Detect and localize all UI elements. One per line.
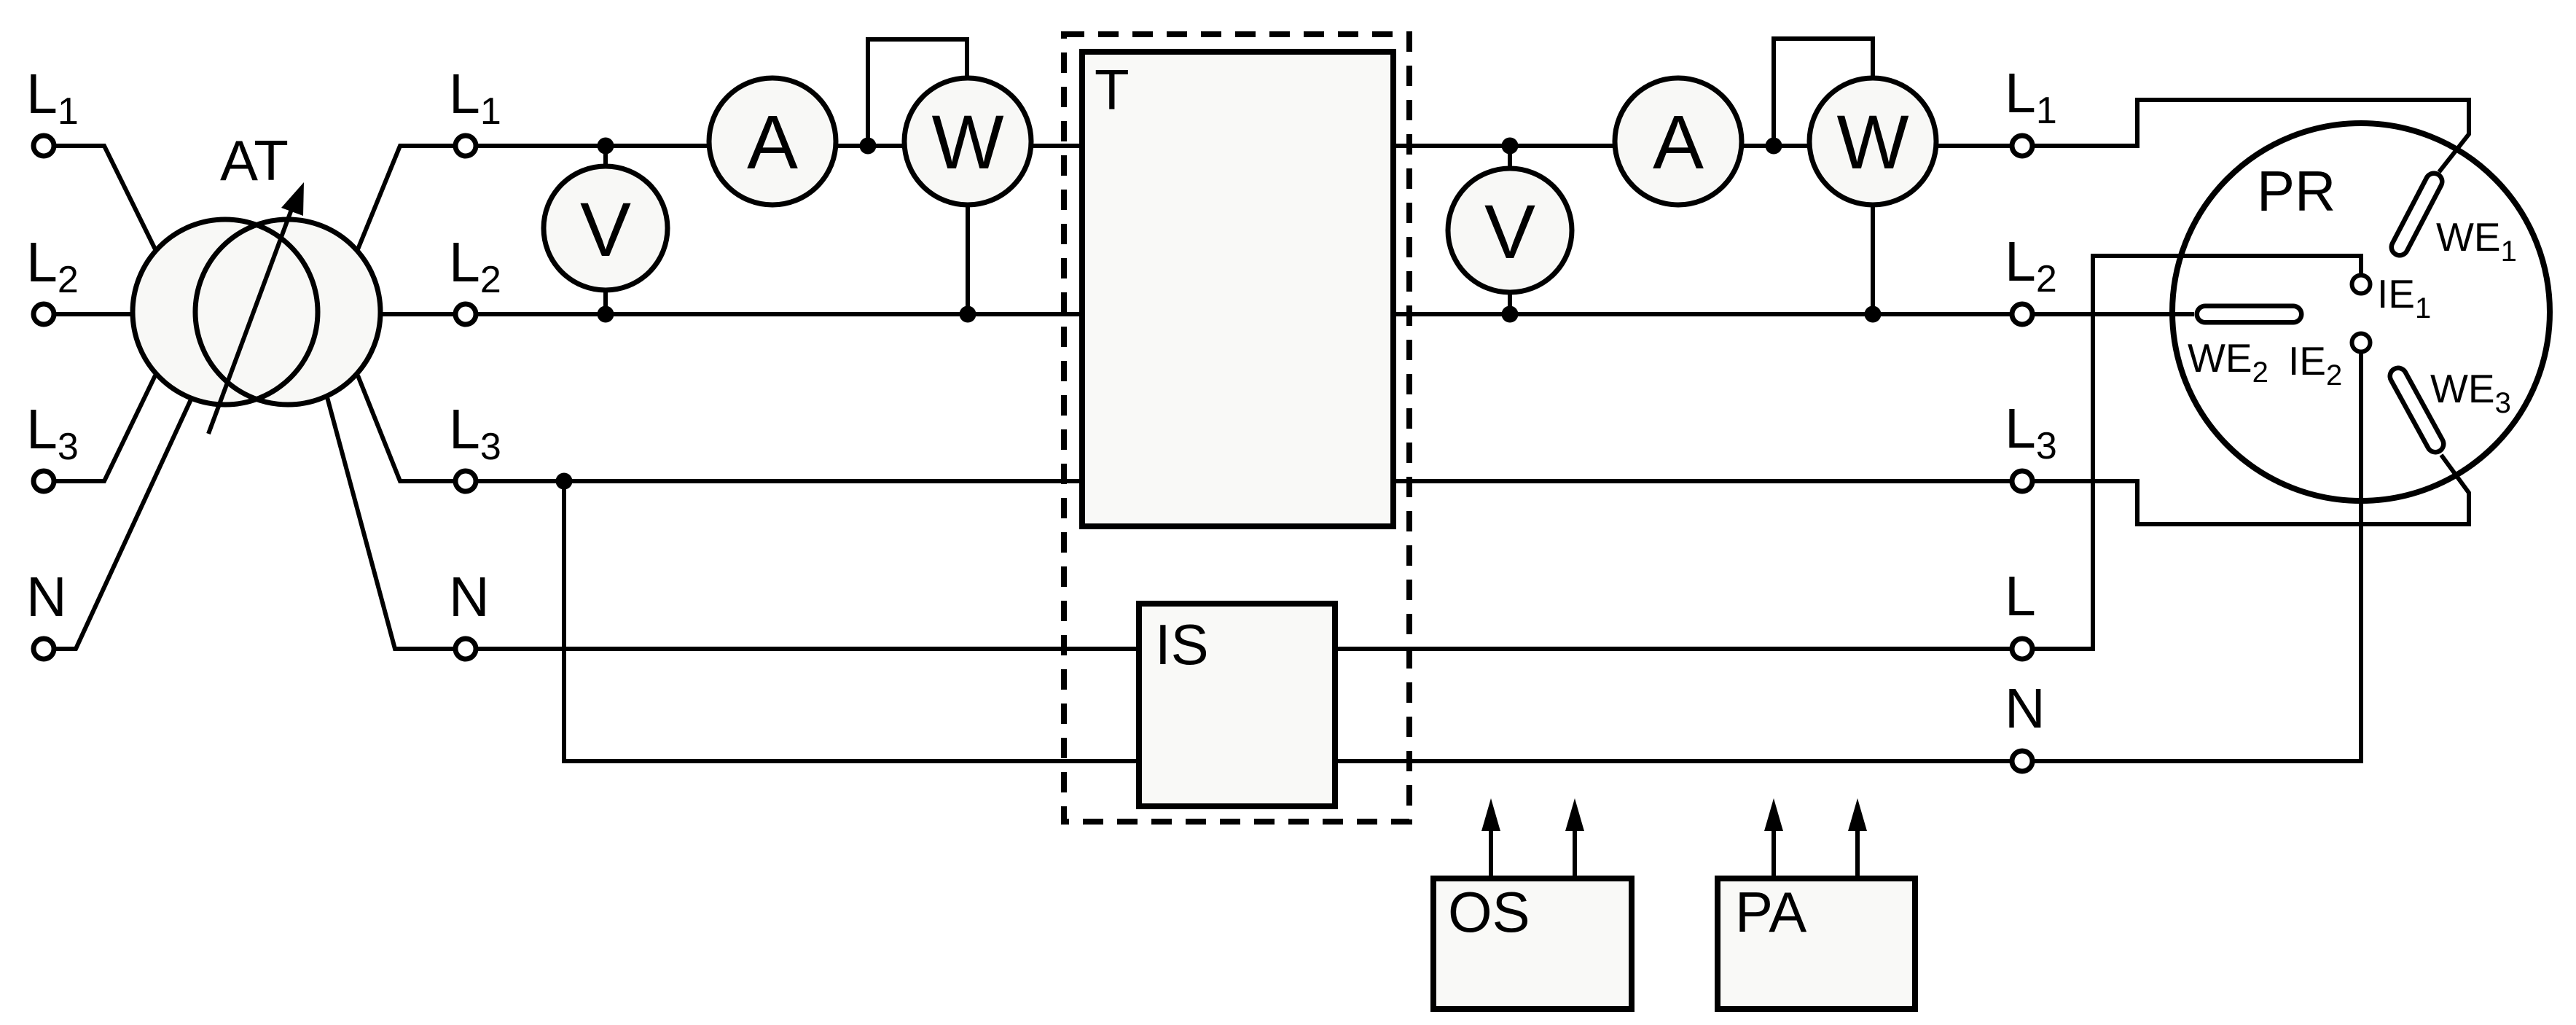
box IS	[1139, 604, 1335, 806]
wattmeter W1 voltage loop	[868, 39, 967, 146]
wattmeter W2 bottom stem	[1871, 205, 1875, 314]
terminal L output	[2012, 639, 2032, 659]
svg-text:A: A	[747, 100, 798, 185]
svg-text:N: N	[26, 566, 67, 628]
box T	[1082, 52, 1393, 526]
svg-text:AT: AT	[220, 128, 289, 192]
contact IE2	[2352, 334, 2371, 352]
junction L3 drop	[556, 473, 573, 490]
terminal L3 supply	[34, 471, 54, 491]
wire AT to node L1	[358, 146, 455, 249]
svg-text:N: N	[449, 566, 490, 628]
arrow OS left	[1481, 798, 1500, 878]
wire L1 row W to T	[1031, 144, 1082, 148]
wattmeter W1 bottom stem	[966, 205, 970, 314]
ammeter A1	[709, 78, 836, 205]
arrow PA left	[1764, 798, 1783, 878]
voltmeter V2 stem bottom	[1508, 292, 1512, 314]
svg-text:W: W	[931, 100, 1003, 185]
terminal N supply	[34, 639, 54, 659]
box PA	[1718, 878, 1915, 1009]
voltmeter V1 stem top	[603, 146, 608, 167]
autotransformer AT winding circle 2	[195, 219, 380, 405]
svg-text:N: N	[2005, 677, 2045, 740]
voltmeter V1 stem bottom	[603, 289, 608, 314]
svg-text:A: A	[1653, 100, 1704, 185]
wire N output to IE2	[2033, 352, 2361, 761]
junction V2 bottom	[1502, 306, 1519, 323]
svg-text:V: V	[580, 187, 631, 273]
svg-text:PR: PR	[2257, 159, 2336, 223]
junction V2 top	[1502, 138, 1519, 155]
terminal L2 secondary	[455, 304, 476, 324]
wire L2 output to WE2	[2033, 312, 2194, 316]
wire L1 row A2 to W2	[1742, 144, 1809, 148]
autotransformer AT body fill	[133, 219, 380, 405]
wire L1 row T to right set	[1393, 144, 1615, 148]
voltmeter V2 stem top	[1508, 146, 1512, 169]
wire N row left to IS	[477, 647, 1139, 651]
wire L2 row left	[477, 312, 1082, 316]
wire L2 supply to AT	[55, 312, 133, 316]
svg-text:L: L	[2005, 565, 2036, 628]
box OS	[1433, 878, 1632, 1009]
wire L3 row right	[1393, 479, 2012, 483]
wire L row IS to terminal	[1335, 647, 2012, 651]
heating element WE3	[2398, 376, 2435, 444]
svg-text:IS: IS	[1155, 612, 1209, 677]
heating element WE1	[2400, 182, 2434, 247]
socket PR outline	[2172, 123, 2550, 501]
wire AT to node L2	[380, 312, 455, 316]
voltmeter V1	[544, 166, 668, 290]
wire AT to node N	[327, 397, 455, 649]
terminal L1 secondary	[455, 136, 476, 156]
dashed enclosure	[1064, 34, 1409, 822]
autotransformer AT variable arrow	[208, 182, 304, 434]
wire L1 supply to AT	[55, 146, 155, 249]
wattmeter W2 voltage loop	[1774, 39, 1873, 146]
contact IE1	[2352, 276, 2371, 294]
terminal L2 supply	[34, 304, 54, 324]
junction W2 bottom	[1865, 306, 1882, 323]
wire L3 output to WE3	[2033, 455, 2469, 524]
terminal N output	[2012, 751, 2032, 771]
wire AT to node L3	[358, 375, 455, 481]
junction W2 tap	[1766, 138, 1782, 155]
wire L3 supply to AT	[55, 375, 155, 481]
wire L2 row right	[1393, 312, 2012, 316]
voltmeter V2	[1448, 168, 1572, 292]
junction W1 bottom	[960, 306, 976, 323]
junction W1 tap	[860, 138, 877, 155]
terminal L1 output	[2012, 136, 2032, 156]
wire N supply to AT	[55, 400, 191, 649]
wire L1 row A to W	[836, 144, 904, 148]
wire L1 row left measuring set	[477, 144, 709, 148]
wire L1 output to WE1	[2033, 100, 2469, 172]
terminal L2 output	[2012, 304, 2032, 324]
heating element WE2	[2205, 304, 2293, 325]
svg-text:OS: OS	[1448, 880, 1530, 944]
svg-text:T: T	[1095, 58, 1130, 122]
wire L3 row left	[477, 479, 1082, 483]
wattmeter W2	[1809, 78, 1936, 205]
svg-text:W: W	[1836, 100, 1908, 185]
terminal N secondary	[455, 639, 476, 659]
arrow OS right	[1565, 798, 1584, 878]
arrow PA right	[1848, 798, 1867, 878]
svg-text:PA: PA	[1735, 880, 1806, 944]
svg-text:V: V	[1484, 190, 1535, 275]
junction V1 bottom	[598, 306, 614, 323]
wire L1 row W2 to terminal	[1936, 144, 2012, 148]
junction V1 top	[598, 138, 614, 155]
terminal L3 output	[2012, 471, 2032, 491]
terminal L3 secondary	[455, 471, 476, 491]
wattmeter W1	[904, 78, 1031, 205]
terminal L1 supply	[34, 136, 54, 156]
wire N row IS to terminal	[1335, 759, 2012, 763]
ammeter A2	[1615, 78, 1742, 205]
wire L3 drop to IS lower row	[564, 481, 1139, 761]
autotransformer AT winding circle 1	[133, 219, 318, 405]
wire L output to IE1	[2033, 256, 2361, 649]
